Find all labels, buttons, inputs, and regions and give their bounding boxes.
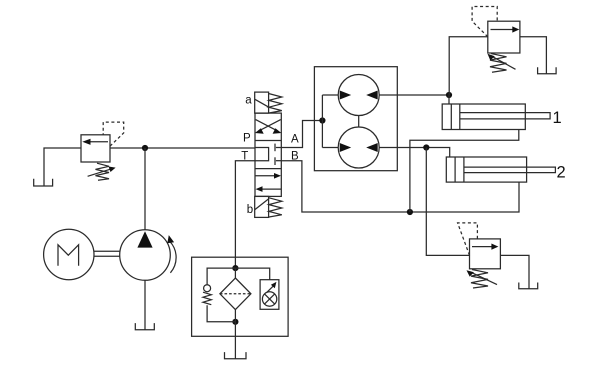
RV2 adjust arrow [491,56,516,70]
RV3 flow arrow [472,246,495,248]
svg-text:A: A [291,134,299,146]
svg-text:b: b [247,204,253,216]
RV3 pilot line (dashed) [458,223,478,255]
relief valve RV3 (bottom right) [470,239,501,269]
svg-text:2: 2 [557,163,566,181]
DCV centre position: blocked A [276,147,281,149]
wire: RV3 outlet to tank [500,255,529,288]
wire: divider top outlet to cylinder 1 [379,94,449,96]
flow divider enclosure [314,67,397,171]
RV2 spring [490,54,507,73]
DCV position b: parallel arrows [256,175,278,177]
wire: RV2 outlet to tank [520,37,547,74]
wire: divider inlet branches [321,95,323,148]
DCV centre position: blocked B [276,160,281,162]
wire: RV2 inlet [449,37,488,95]
cylinder 1 rod [460,113,550,119]
wire: RV1 outlet to tank [44,148,81,186]
flow divider motor FD1 [338,75,379,116]
filter element [220,278,251,310]
wire: pump outlet riser [144,148,146,230]
spring a [269,94,282,113]
RV2 flow arrow [491,29,516,31]
wire: pump suction line [144,280,146,330]
svg-text:a: a [245,95,252,107]
spring b [269,198,282,217]
rotation arrow [170,242,176,273]
pump P1 [120,230,171,281]
wire: B line to cylinder rod ends [281,161,519,212]
relief valve RV1 (left) [81,135,110,162]
shaft link [358,116,360,128]
node: flow divider inlet [319,117,325,123]
motor M [44,229,94,279]
wire: cylinder1 rod end to B junction [410,130,519,213]
wire: divider bottom outlet to cylinder 2 [379,148,450,158]
tank: RV1 [34,179,53,186]
node: filter top junction [232,265,238,271]
wire: main pressure line P (relief valve to valve port P) [110,147,255,149]
cylinder 2 rod [464,167,556,173]
RV1 adjust arrow [88,169,112,177]
node: rod-end junction [407,209,413,215]
wire: filter centre line [234,268,236,278]
tank: pump suction [135,323,154,330]
filter unit enclosure [192,257,289,336]
DCV centre position: P-T connected [255,148,269,161]
DCV position a: crossed arrows [256,120,278,132]
svg-text:1: 1 [553,109,562,127]
coupling shaft [94,250,120,252]
cylinder 1 barrel [442,104,525,130]
RV1 pilot line (dashed) [103,122,124,146]
RV1 spring [96,163,110,180]
RV3 adjust arrow [470,272,497,285]
flow divider motor FD2 [338,127,379,168]
cylinder 2 piston [454,157,456,182]
wire: T return line to filter unit [235,161,255,268]
wire: filter outlet to tank [234,322,236,359]
node: pump junction [142,145,148,151]
node: filter bottom junction [232,319,238,325]
tank: filter [225,352,247,359]
clogging indicator [235,268,269,280]
wire: A line to flow divider [281,121,322,148]
relief valve RV2 (top right) [488,21,520,53]
svg-text:P: P [243,133,251,145]
cylinder 2 barrel [446,157,526,182]
RV1 flow arrow [88,141,108,143]
node: cylinder1 cap junction [446,92,452,98]
wire: RV3 inlet riser [426,148,469,256]
directional valve DCV body [255,113,281,196]
wire: cylinder1 cap port [448,95,450,104]
bypass check valve [207,268,235,284]
tank: RV2 [538,67,557,74]
node: cylinder2 cap junction [423,144,429,150]
RV2 pilot line (dashed) [472,7,497,37]
cylinder 1 piston [450,104,452,130]
solenoid a [255,92,269,113]
tank: RV3 [519,283,538,289]
solenoid b [255,196,269,217]
RV3 spring [471,270,488,289]
